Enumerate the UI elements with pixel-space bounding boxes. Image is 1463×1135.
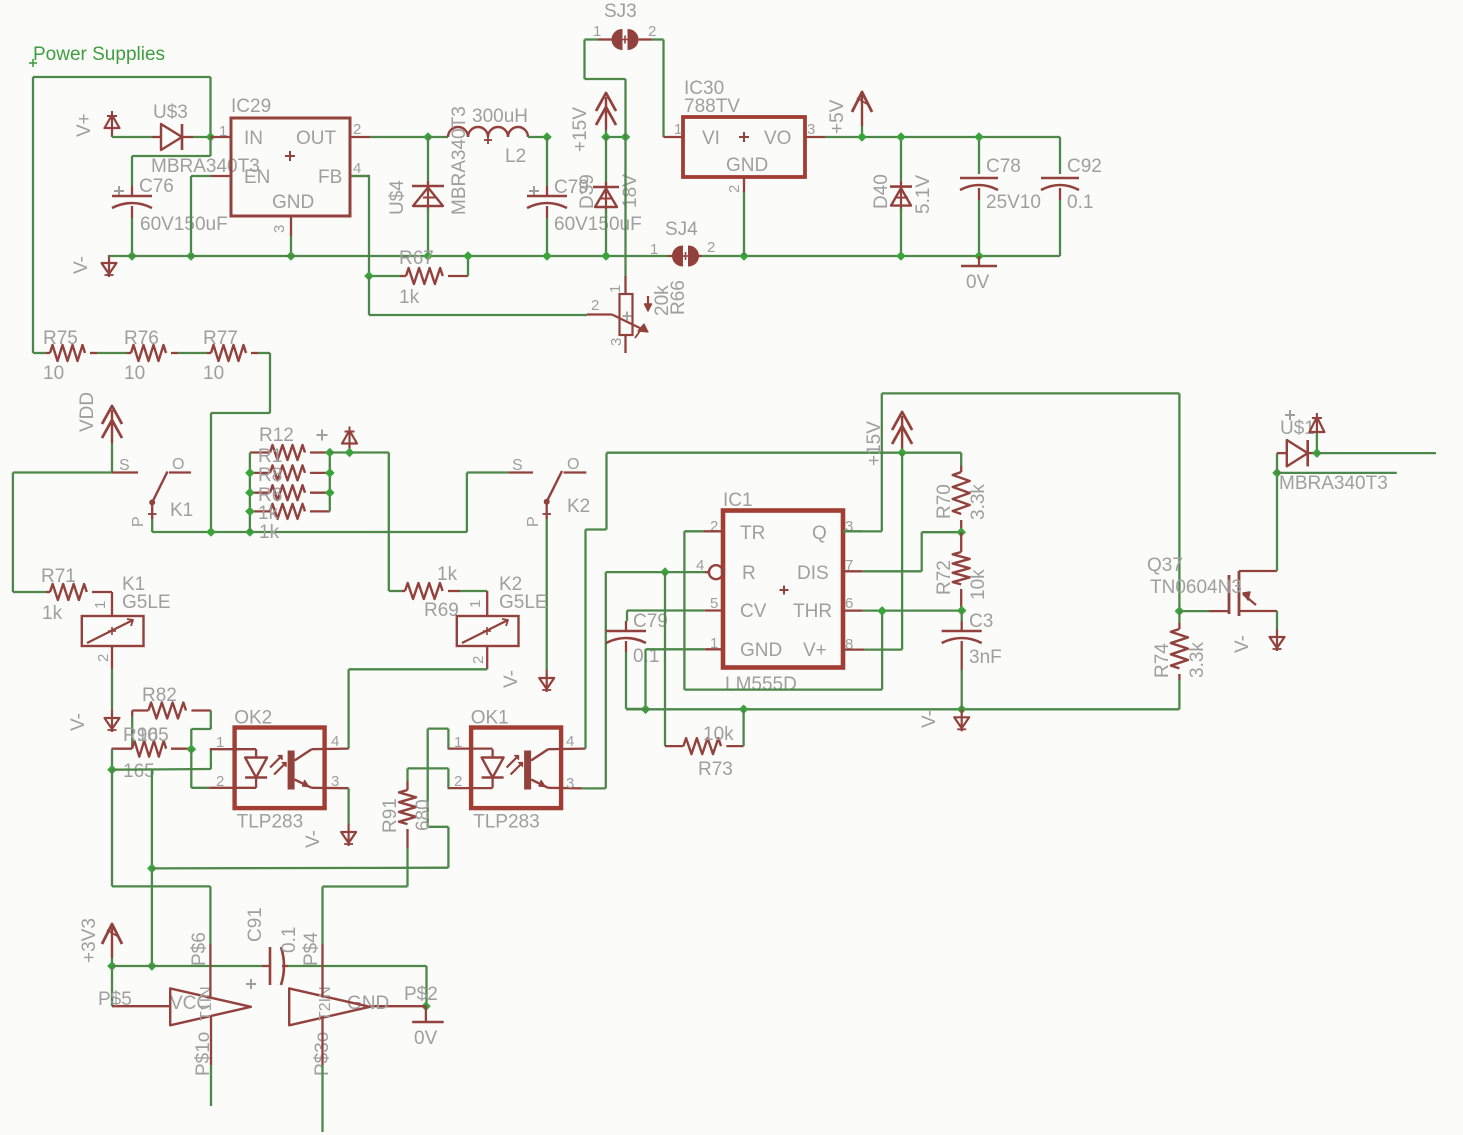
junction C78 top: [974, 132, 984, 142]
wire OUT node: [370, 136, 428, 138]
svg-text:OK2: OK2: [234, 708, 272, 729]
buffer T2 triangle: [289, 986, 370, 1076]
svg-text:P: P: [130, 516, 147, 527]
svg-text:SJ4: SJ4: [665, 219, 698, 240]
supply V+ at R12: [342, 427, 357, 453]
svg-text:D39: D39: [577, 174, 598, 209]
wire 165 row: [112, 768, 211, 771]
buffer T1 triangle: [170, 986, 251, 1076]
wire R82 right jog: [191, 711, 211, 750]
wire +15V node to SJ3 branch: [606, 136, 626, 138]
supply +15V arrow (top): [570, 93, 616, 152]
svg-text:T1IN: T1IN: [198, 986, 215, 1021]
svg-text:2: 2: [648, 23, 656, 40]
svg-text:DIS: DIS: [797, 563, 829, 584]
wire C76 to V- rail: [131, 218, 133, 256]
svg-text:R82: R82: [142, 685, 177, 706]
junction R12 right row2: [325, 468, 335, 478]
wire K1 pin2 to V-: [111, 669, 113, 710]
wire node to C76: [132, 137, 211, 186]
svg-text:3.3k: 3.3k: [968, 484, 989, 520]
pin P$2 (GND): [347, 984, 438, 1014]
svg-text:C3: C3: [969, 611, 993, 632]
svg-text:CV: CV: [740, 601, 767, 622]
capacitor C3 3nF: [942, 611, 1002, 710]
svg-text:P$5: P$5: [98, 989, 132, 1010]
wire +5V rail: [825, 136, 1060, 138]
svg-text:GND: GND: [740, 640, 782, 661]
ic IC1 LM555D box: [696, 490, 864, 695]
switch K2: [508, 456, 590, 527]
svg-text:T2IN: T2IN: [317, 986, 334, 1021]
svg-text:R1: R1: [258, 446, 282, 467]
svg-text:1k: 1k: [42, 603, 63, 624]
supply V- at Q37: [1232, 629, 1285, 653]
wire reset pin4 net: [606, 571, 705, 573]
svg-text:0V: 0V: [414, 1028, 438, 1049]
svg-text:18V: 18V: [620, 174, 641, 208]
svg-text:3nF: 3nF: [969, 647, 1002, 668]
junction THR mid: [877, 606, 887, 616]
svg-text:300uH: 300uH: [472, 106, 528, 127]
junction 3V3 rail riser: [147, 961, 157, 971]
junction gate node: [1175, 606, 1185, 616]
resistor R91 680: [380, 768, 434, 886]
junction D39 rail: [601, 251, 611, 261]
junction R77 bus: [206, 527, 216, 537]
supply +15V arrow (555): [864, 412, 912, 466]
svg-text:C76: C76: [139, 176, 174, 197]
svg-text:1: 1: [593, 23, 601, 40]
resistor R67 1k: [351, 176, 468, 308]
svg-text:3: 3: [271, 225, 288, 233]
svg-text:G5LE: G5LE: [122, 592, 171, 613]
svg-text:C92: C92: [1067, 156, 1102, 177]
junction OUT node: [423, 132, 433, 142]
capacitor C78 25V10: [960, 137, 1041, 256]
svg-text:P$2: P$2: [404, 984, 438, 1005]
resistor R69 1k: [389, 564, 487, 621]
svg-text:+15V: +15V: [570, 107, 591, 152]
capacitor C79 60V150uF: [527, 137, 642, 256]
junction FB node: [364, 271, 374, 281]
svg-text:VO: VO: [764, 128, 791, 149]
junction R12 right row3: [325, 488, 335, 498]
wire R90 left down: [111, 749, 113, 770]
supply VDD arrow: [77, 392, 122, 443]
svg-text:Q: Q: [812, 523, 827, 544]
junction D40 bottom: [896, 251, 906, 261]
wire P$5 from 3V3: [111, 966, 113, 1006]
resistor R72 10k: [934, 532, 989, 610]
svg-text:K1: K1: [170, 500, 193, 521]
wire OK1 pin1 jog: [428, 729, 449, 749]
capacitor C92 0.1: [1041, 137, 1102, 256]
svg-text:25V10: 25V10: [986, 192, 1041, 213]
svg-text:1k: 1k: [399, 287, 420, 308]
supply +3V3 arrow: [79, 918, 122, 966]
svg-text:U$4: U$4: [387, 180, 408, 215]
svg-text:SJ3: SJ3: [604, 1, 637, 22]
relay K1 coil G5LE: [82, 574, 171, 669]
junction GND rail: [286, 251, 296, 261]
svg-text:GND: GND: [272, 192, 314, 213]
wire GND pin3 to rail: [290, 236, 292, 256]
svg-text:L2: L2: [505, 146, 526, 167]
svg-text:10k: 10k: [703, 724, 734, 745]
capacitor C76: [112, 176, 228, 235]
junction R12 left row2: [245, 468, 255, 478]
svg-text:680: 680: [413, 799, 434, 831]
wire pin1 net down to P$6: [112, 770, 210, 944]
svg-text:TLP283: TLP283: [237, 812, 304, 833]
supply V+ at U$1: [1309, 413, 1324, 453]
wire 3V3 riser: [151, 769, 153, 966]
svg-text:1: 1: [454, 734, 462, 751]
pin P$5 (VCC): [98, 989, 210, 1014]
optocoupler OK1 TLP283: [448, 708, 586, 833]
supply V+ (top left): [74, 111, 120, 137]
svg-text:LM555D: LM555D: [725, 674, 797, 695]
svg-text:2: 2: [726, 185, 743, 193]
wire relay K2 pin2 to OK2 pin4: [349, 669, 488, 748]
svg-text:V-: V-: [501, 670, 522, 688]
svg-text:2: 2: [470, 656, 487, 664]
junction +15V arrow 555: [897, 448, 907, 458]
wire K2 P to V-: [546, 519, 548, 670]
wire source to V-: [1276, 611, 1278, 629]
junction SJ3 branch: [621, 132, 631, 142]
svg-text:1: 1: [216, 734, 224, 751]
wire Q output net: [843, 393, 1179, 611]
svg-text:0.1: 0.1: [1067, 192, 1093, 213]
svg-text:R72: R72: [934, 560, 955, 595]
svg-text:U$3: U$3: [153, 102, 188, 123]
wire EN to rail: [191, 176, 211, 256]
svg-text:0.1: 0.1: [279, 927, 300, 953]
svg-text:V-: V-: [303, 830, 324, 848]
svg-text:R66: R66: [668, 280, 689, 315]
svg-text:OK1: OK1: [471, 708, 509, 729]
svg-text:V+: V+: [803, 640, 827, 661]
junction THR right: [957, 606, 967, 616]
wire OK1 pin1 net down: [428, 729, 449, 868]
svg-text:3: 3: [608, 338, 625, 346]
svg-text:R12: R12: [259, 425, 294, 446]
svg-text:4: 4: [566, 733, 574, 750]
svg-text:2: 2: [95, 654, 112, 662]
svg-text:R74: R74: [1152, 643, 1173, 678]
svg-text:3: 3: [807, 121, 815, 138]
svg-text:10: 10: [203, 363, 224, 384]
svg-text:V-: V-: [919, 710, 940, 728]
svg-text:R91: R91: [380, 798, 401, 833]
svg-text:10: 10: [43, 363, 64, 384]
wire IC30 GND down: [743, 192, 745, 256]
wire OK1 pin3 to reset net: [582, 572, 606, 788]
svg-text:R69: R69: [424, 600, 459, 621]
svg-text:4: 4: [331, 733, 339, 750]
supply 0V symbol: [961, 256, 997, 293]
svg-text:O: O: [567, 456, 579, 473]
wire L2 to +15V node: [528, 136, 547, 138]
svg-text:788TV: 788TV: [684, 96, 740, 117]
junction C78 bottom: [974, 251, 984, 261]
wire 0V rail right of SJ4: [702, 255, 1060, 257]
junction R12 bottom bus: [245, 527, 255, 537]
diode U$4 freewheel: [387, 137, 444, 256]
diode D39 zener 18V: [577, 137, 641, 256]
svg-text:VI: VI: [702, 128, 720, 149]
wire SJ3 pin2 to IC30 VI: [664, 40, 684, 138]
svg-text:R8: R8: [258, 465, 282, 486]
svg-text:1k: 1k: [258, 503, 279, 524]
wire 3V3 horizontal run: [152, 867, 449, 870]
wire THR net: [863, 609, 962, 611]
wire +15V to V+ pin8: [864, 453, 902, 650]
svg-text:TLP283: TLP283: [473, 812, 540, 833]
svg-text:IN: IN: [244, 128, 263, 149]
supply V- below OK2: [303, 824, 356, 848]
junction R12 right row1: [325, 448, 335, 458]
switch K1: [112, 456, 193, 527]
junction +5V arrow: [857, 132, 867, 142]
wire OK2 pin2 jog: [191, 749, 209, 788]
svg-text:+3V3: +3V3: [79, 918, 100, 963]
svg-text:165: 165: [137, 725, 169, 746]
resistor R77 10: [178, 328, 258, 384]
transistor Q37 TN0604N3: [1147, 555, 1277, 616]
ic IC30 788TV box: [674, 78, 825, 193]
wire R77 to K1 P: [211, 353, 270, 532]
svg-text:0V: 0V: [966, 272, 990, 293]
svg-text:2: 2: [707, 239, 715, 256]
junction OK2 drive node: [186, 744, 196, 754]
junction IC30 GND rail: [739, 251, 749, 261]
wire CV net: [627, 611, 705, 622]
svg-text:R71: R71: [41, 566, 76, 587]
wire 555 gnd rail: [626, 708, 1179, 710]
junction at IC29 pin1: [206, 132, 216, 142]
wire K1 P to bus: [152, 519, 467, 532]
svg-text:V+: V+: [74, 113, 95, 137]
diode D40 zener 5.1V: [871, 137, 934, 256]
supply 0V at P$2: [412, 1006, 444, 1049]
svg-text:C79: C79: [633, 611, 668, 632]
svg-text:3.3k: 3.3k: [1187, 642, 1208, 678]
svg-text:1: 1: [650, 241, 658, 258]
svg-text:2: 2: [591, 297, 599, 314]
svg-text:S: S: [512, 457, 523, 474]
svg-text:P$4: P$4: [301, 932, 322, 966]
svg-text:R70: R70: [934, 484, 955, 519]
resistor R73 10k: [665, 572, 744, 780]
svg-text:K2: K2: [567, 496, 590, 517]
svg-text:1: 1: [92, 601, 109, 609]
svg-text:R77: R77: [203, 328, 238, 349]
inductor L2 300uH: [428, 106, 528, 167]
wire THR-TR link: [881, 611, 883, 690]
resistor R76 10: [97, 328, 178, 384]
junction gnd rail pin1: [641, 704, 651, 714]
svg-text:5.1V: 5.1V: [913, 175, 934, 214]
wire V+ to diode: [112, 136, 152, 138]
label MBRA340T3 vertical (U$4): [449, 106, 470, 215]
wire V+ down to R69: [388, 453, 390, 592]
wire OK2 pin3 to V-: [347, 788, 349, 824]
svg-text:1k: 1k: [259, 522, 280, 543]
wire C79 bottom to gnd rail: [626, 652, 646, 709]
svg-text:3: 3: [331, 773, 339, 790]
wire OK2 pin1 jog: [210, 749, 212, 769]
svg-text:C91: C91: [245, 907, 266, 942]
svg-text:165: 165: [123, 761, 155, 782]
svg-text:TN0604N3: TN0604N3: [1150, 577, 1242, 598]
svg-text:1k: 1k: [437, 564, 458, 585]
svg-text:VDD: VDD: [77, 392, 98, 432]
svg-text:IC29: IC29: [231, 96, 271, 117]
wire K1 S to left: [13, 473, 112, 593]
wire drain node right: [1277, 472, 1397, 474]
svg-text:G5LE: G5LE: [499, 592, 548, 613]
junction 3V3 rail left: [107, 961, 117, 971]
svg-text:P$6: P$6: [189, 932, 210, 966]
optocoupler OK2 TLP283: [209, 708, 348, 833]
relay K2 coil G5LE: [457, 574, 548, 669]
svg-text:C78: C78: [986, 156, 1021, 177]
svg-text:R67: R67: [399, 248, 434, 269]
wire DIS net: [863, 532, 962, 571]
ic IC29 buck regulator box: [211, 96, 371, 236]
diode U$1 MBRA340T3: [1277, 410, 1388, 494]
svg-text:10k: 10k: [968, 569, 989, 600]
capacitor C79 0.1 (at CV): [606, 611, 668, 667]
svg-text:Q37: Q37: [1147, 555, 1183, 576]
junction 3V3 riser cross: [147, 864, 157, 874]
svg-text:60V150uF: 60V150uF: [140, 214, 228, 235]
svg-text:TR: TR: [740, 523, 765, 544]
wire R91 bottom to P$4: [323, 887, 408, 945]
svg-text:V-: V-: [68, 713, 89, 731]
wire GND pin1 net: [646, 649, 705, 709]
junction +15V L2 node: [542, 132, 552, 142]
capacitor C91 0.1: [245, 907, 300, 989]
supply V- (top left): [71, 255, 117, 277]
potentiometer R66 20k: [587, 137, 689, 353]
junction gnd rail V-: [957, 704, 967, 714]
svg-text:MBRA340T3: MBRA340T3: [449, 106, 470, 215]
pin P$4 T2IN: [301, 932, 323, 998]
junction R70 R72 DIS: [956, 527, 966, 537]
pin T2OUT: [321, 1016, 323, 1132]
resistor R90 165: [112, 725, 192, 782]
svg-text:+15V: +15V: [864, 421, 885, 466]
svg-text:IC1: IC1: [723, 490, 753, 511]
svg-text:EN: EN: [244, 167, 270, 188]
wire R12 top to V+: [330, 451, 389, 453]
supply V- below K1: [68, 710, 120, 732]
wire C91 to 0V corner: [288, 966, 427, 1006]
resistor R70 3.3k: [934, 453, 989, 533]
resistor R74 3.3k: [1152, 611, 1208, 709]
supply V- below K2: [501, 670, 554, 692]
junction gnd rail R73: [739, 704, 749, 714]
title text Power Supplies: [29, 44, 165, 67]
junction reset node: [660, 567, 670, 577]
junction R12 left row4: [245, 507, 255, 517]
resistor R82: [132, 685, 211, 719]
svg-text:+5V: +5V: [827, 99, 848, 134]
wire diode to IC29 IN: [193, 136, 211, 138]
junction R67 right rail: [463, 251, 473, 261]
svg-text:10: 10: [124, 363, 145, 384]
junction V+ R12: [345, 448, 355, 458]
junction +15V arrow node: [601, 132, 611, 142]
wire U$1 cathode right: [1317, 452, 1436, 454]
svg-text:2: 2: [353, 121, 361, 138]
wire K2 S to bus: [467, 473, 508, 533]
svg-text:1: 1: [467, 600, 484, 608]
svg-text:V-: V-: [1232, 635, 1253, 653]
svg-text:2: 2: [454, 773, 462, 790]
svg-text:U$1: U$1: [1280, 418, 1315, 439]
svg-text:60V150uF: 60V150uF: [554, 214, 642, 235]
svg-text:2: 2: [710, 518, 718, 535]
wire +15V rail (555 area): [607, 452, 962, 454]
junction C79 rail: [542, 251, 552, 261]
svg-text:R76: R76: [124, 328, 159, 349]
svg-text:FB: FB: [318, 167, 342, 188]
junction 165 row: [107, 765, 117, 775]
diode U$3: [151, 102, 260, 177]
supply V- at gnd rail: [919, 709, 969, 731]
resistor R71 1k: [13, 566, 112, 624]
pin P$6 T1IN: [189, 932, 210, 998]
svg-text:R73: R73: [698, 759, 733, 780]
junction D40 top: [896, 132, 906, 142]
junction C76 rail: [127, 251, 137, 261]
svg-text:THR: THR: [793, 601, 832, 622]
junction P$2 0V node: [421, 1001, 431, 1011]
svg-text:O: O: [172, 456, 184, 473]
junction R12 left row3: [245, 488, 255, 498]
jumper SJ3: [585, 1, 664, 50]
wire R82 left down: [131, 711, 133, 749]
wire FB node to pot wiper: [369, 276, 587, 315]
jumper SJ4: [650, 219, 715, 266]
svg-text:R: R: [742, 563, 756, 584]
junction EN rail: [186, 251, 196, 261]
svg-text:OUT: OUT: [296, 128, 337, 149]
wire net V+ input top loop: [33, 77, 211, 353]
svg-text:GND: GND: [726, 155, 768, 176]
svg-text:R75: R75: [43, 328, 78, 349]
svg-text:1: 1: [607, 285, 624, 293]
wire TR net: [684, 531, 882, 689]
svg-text:1: 1: [674, 121, 682, 138]
wire drain up: [1276, 473, 1278, 571]
svg-text:MBRA340T3: MBRA340T3: [1279, 473, 1388, 494]
supply +5V arrow: [827, 92, 872, 137]
svg-text:P: P: [525, 516, 542, 527]
svg-text:V-: V-: [71, 256, 92, 274]
svg-text:Power Supplies: Power Supplies: [33, 44, 165, 65]
wire OK1 pin4 to +15V: [586, 453, 607, 749]
pin T1OUT: [210, 1016, 212, 1106]
resistor bank R12 (4x parallel): [250, 425, 330, 543]
svg-text:3: 3: [566, 775, 574, 792]
svg-text:4: 4: [353, 160, 361, 177]
